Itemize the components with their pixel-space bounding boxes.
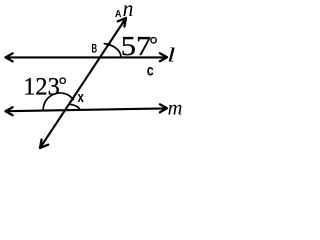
wire line m [7,108,166,111]
arrowhead top end of transversal n [118,18,126,27]
angle arc x at X [69,104,80,110]
svg-text:°: ° [149,32,157,56]
angle arc 123 at X [43,93,74,110]
arrowhead left end of line l [6,53,13,61]
arrowhead right end of line l [160,53,167,61]
svg-text:57: 57 [121,31,151,61]
wire line l [7,56,166,58]
svg-text:m: m [168,98,183,120]
wire transversal n [41,20,125,147]
arrowhead left end of line m [6,107,13,115]
svg-text:123: 123 [23,71,59,100]
arrowhead right end of line m [160,104,167,112]
svg-text:B: B [92,42,98,56]
angle arc 57 at B [104,44,121,58]
svg-text:l: l [167,46,175,67]
svg-text:°: ° [59,72,67,96]
svg-text:n: n [123,0,134,21]
svg-text:x: x [78,90,84,106]
arrowhead bottom end of transversal n [40,140,48,149]
svg-text:A: A [115,9,121,20]
svg-text:c: c [147,63,154,80]
